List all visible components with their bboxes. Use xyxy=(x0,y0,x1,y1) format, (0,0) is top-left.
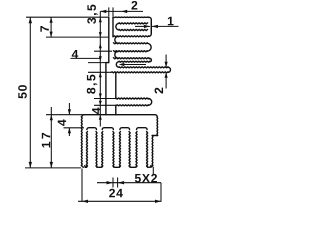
slot between fin 2 and fin 3 xyxy=(115,51,118,58)
extension line fin1 bottom xyxy=(46,36,109,38)
heatsink spine wall xyxy=(106,17,116,115)
extension line base top xyxy=(46,114,84,116)
dimension 50 line xyxy=(29,17,31,168)
base slot 2 xyxy=(119,128,130,168)
dimension 7 line xyxy=(50,17,52,37)
dimension 4 label right xyxy=(92,108,100,115)
base slot 0 xyxy=(86,128,97,168)
base fin tips xyxy=(85,166,151,168)
dimension 3.5 label xyxy=(87,5,97,24)
dimension 8.5 label xyxy=(87,75,97,94)
base plate outline xyxy=(81,115,157,168)
fin 2 outline xyxy=(114,43,152,52)
dimension 4 left line xyxy=(64,103,85,136)
dimension 5X2 label xyxy=(135,174,157,183)
base slot 3 xyxy=(136,128,148,168)
top extension line xyxy=(26,16,109,18)
slot between fin 1 and fin 2 xyxy=(115,36,118,43)
fin 4 outline xyxy=(116,98,152,106)
dimension 2 top label xyxy=(131,1,137,10)
fin 1 outline xyxy=(113,17,151,37)
dimension 4 leader xyxy=(71,57,101,59)
dimension 17 line xyxy=(50,107,52,168)
dimension 2 top line xyxy=(100,7,143,16)
fin 3 outline xyxy=(112,58,171,73)
dimension 50 label xyxy=(18,85,27,98)
fin 1 inner slot xyxy=(116,23,148,31)
dimension 24 label xyxy=(109,189,123,198)
dimension 2 right label xyxy=(155,88,164,94)
dimension 4 left label xyxy=(58,119,66,126)
extension lines left xyxy=(88,51,116,105)
extension stub right wall xyxy=(152,167,154,175)
dimension 2 right line xyxy=(165,55,167,89)
dimension 1 label xyxy=(168,17,174,25)
dimension 17 label xyxy=(42,133,50,148)
dimension 7 label xyxy=(40,26,48,32)
dimension 4 upper label xyxy=(72,50,79,58)
stacked dimension line xyxy=(99,11,101,126)
fin 3 slot pointer arrow xyxy=(121,64,146,66)
dimension 1 line xyxy=(135,21,179,34)
dimension 24 line xyxy=(78,169,162,202)
base slot 1 xyxy=(102,128,114,168)
dimension 5X2 line xyxy=(97,178,161,202)
extension line part bottom xyxy=(25,167,81,169)
